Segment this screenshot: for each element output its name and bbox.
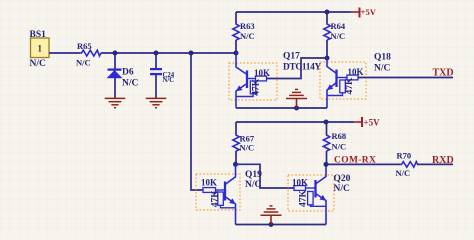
- svg-text:N/C: N/C: [245, 180, 262, 190]
- wire top rail: [236, 11, 351, 13]
- transistor Q19: [196, 164, 262, 224]
- svg-text:N/C: N/C: [240, 143, 255, 153]
- resistor R67: [233, 122, 255, 164]
- wire COM-RX to R70: [326, 163, 400, 165]
- svg-text:DTC114Y: DTC114Y: [283, 63, 322, 73]
- svg-text:N/C: N/C: [122, 79, 139, 89]
- 47K resistor: [308, 192, 314, 205]
- svg-text:10K: 10K: [201, 177, 217, 187]
- svg-text:BS1: BS1: [30, 30, 47, 40]
- wire C24 branch: [155, 53, 157, 68]
- transistor symbol: [224, 182, 226, 201]
- svg-text:N/C: N/C: [334, 184, 351, 194]
- transistor symbol: [335, 70, 337, 88]
- svg-text:N/C: N/C: [331, 31, 346, 41]
- svg-text:1: 1: [38, 44, 43, 54]
- 47K resistor: [218, 192, 224, 205]
- resistor R65: [76, 41, 101, 68]
- svg-text:10K: 10K: [292, 177, 308, 187]
- wire BS1 pin to R65: [49, 52, 80, 54]
- wire emitter rail (bottom section): [236, 224, 327, 226]
- wire D6 branch: [114, 53, 116, 69]
- svg-text:N/C: N/C: [240, 31, 255, 41]
- node COM-RX junction: [324, 162, 329, 167]
- junction node A at R63 / Q17 collector: [234, 51, 239, 56]
- svg-text:RXD: RXD: [432, 155, 454, 166]
- wire Q18 10K to TXD: [358, 77, 453, 79]
- wire D6 to ground: [114, 78, 116, 98]
- ground under D6: [105, 98, 126, 107]
- ground under C24: [146, 98, 167, 107]
- transistor Q17 (DTC114Y digital transistor, mirrored): [229, 52, 322, 109]
- svg-text:Q18: Q18: [374, 53, 391, 63]
- node B junction: [325, 56, 330, 61]
- wire node C to Q20 base: [236, 164, 295, 188]
- ground (bottom section, inverted): [261, 206, 282, 225]
- transistor Q18 (mirrored): [320, 53, 391, 109]
- svg-text:R63: R63: [240, 21, 255, 31]
- junction top rail at R64: [325, 10, 330, 15]
- svg-text:N/C: N/C: [163, 77, 175, 84]
- 10K base resistor: [256, 76, 267, 81]
- 10K base resistor: [347, 75, 358, 80]
- svg-text:+5V: +5V: [364, 117, 381, 127]
- junction emitter rail at ground: [294, 106, 299, 111]
- svg-text:D6: D6: [122, 68, 134, 78]
- junction node A at Q19 tap: [189, 51, 194, 56]
- junction node A at D6 tap: [113, 51, 118, 56]
- connector BS1: [30, 30, 50, 69]
- transistor Q20: [288, 164, 351, 224]
- 47K resistor: [250, 81, 256, 94]
- wire R70 to RXD: [417, 163, 453, 165]
- diode D6: [108, 68, 139, 89]
- svg-text:Q17: Q17: [283, 52, 300, 62]
- svg-text:R64: R64: [331, 21, 346, 31]
- svg-text:10K: 10K: [348, 67, 364, 77]
- transistor symbol: [246, 71, 248, 89]
- wire node A: R65 to R63/Q17 collector: [101, 52, 236, 54]
- resistor R64: [324, 12, 346, 58]
- power +5V (top): [351, 7, 377, 17]
- resistor R63: [233, 12, 255, 53]
- svg-text:N/C: N/C: [76, 58, 91, 68]
- svg-text:N/C: N/C: [332, 142, 347, 152]
- svg-text:+5V: +5V: [361, 7, 377, 17]
- svg-text:TXD: TXD: [433, 68, 454, 79]
- ground (top section, inverted): [286, 89, 307, 108]
- svg-text:47K: 47K: [252, 78, 262, 96]
- wire emitter rail (top section): [236, 107, 327, 109]
- svg-text:R68: R68: [332, 131, 347, 141]
- node C junction: [233, 162, 238, 167]
- wire bottom rail: [236, 121, 354, 123]
- wire tap to Q19 input: [191, 53, 203, 190]
- svg-text:COM-RX: COM-RX: [334, 155, 376, 165]
- 47K resistor: [340, 80, 346, 93]
- wire C24 to ground: [155, 75, 157, 98]
- transistor symbol: [314, 180, 316, 198]
- svg-text:Q19: Q19: [245, 170, 262, 180]
- svg-text:47K: 47K: [298, 190, 308, 208]
- 10K base resistor: [294, 186, 306, 191]
- svg-text:N/C: N/C: [30, 59, 47, 69]
- svg-text:10K: 10K: [254, 68, 270, 78]
- wire node B to Q17 base: [267, 58, 328, 79]
- capacitor C24: [150, 69, 175, 84]
- power +5V (bottom): [354, 117, 380, 127]
- 10K base resistor: [203, 188, 216, 193]
- resistor R70: [396, 150, 418, 178]
- svg-text:47K: 47K: [210, 190, 220, 208]
- svg-text:N/C: N/C: [374, 64, 391, 74]
- svg-text:Q20: Q20: [334, 174, 351, 184]
- svg-text:47K: 47K: [345, 77, 355, 95]
- svg-text:N/C: N/C: [396, 168, 411, 178]
- svg-text:R70: R70: [397, 150, 412, 160]
- junction node A at C24 tap: [154, 51, 159, 56]
- junction bottom rail at R68: [324, 120, 329, 125]
- svg-text:R65: R65: [77, 41, 92, 51]
- junction bottom emitter rail at ground: [269, 222, 274, 227]
- resistor R68: [323, 122, 346, 164]
